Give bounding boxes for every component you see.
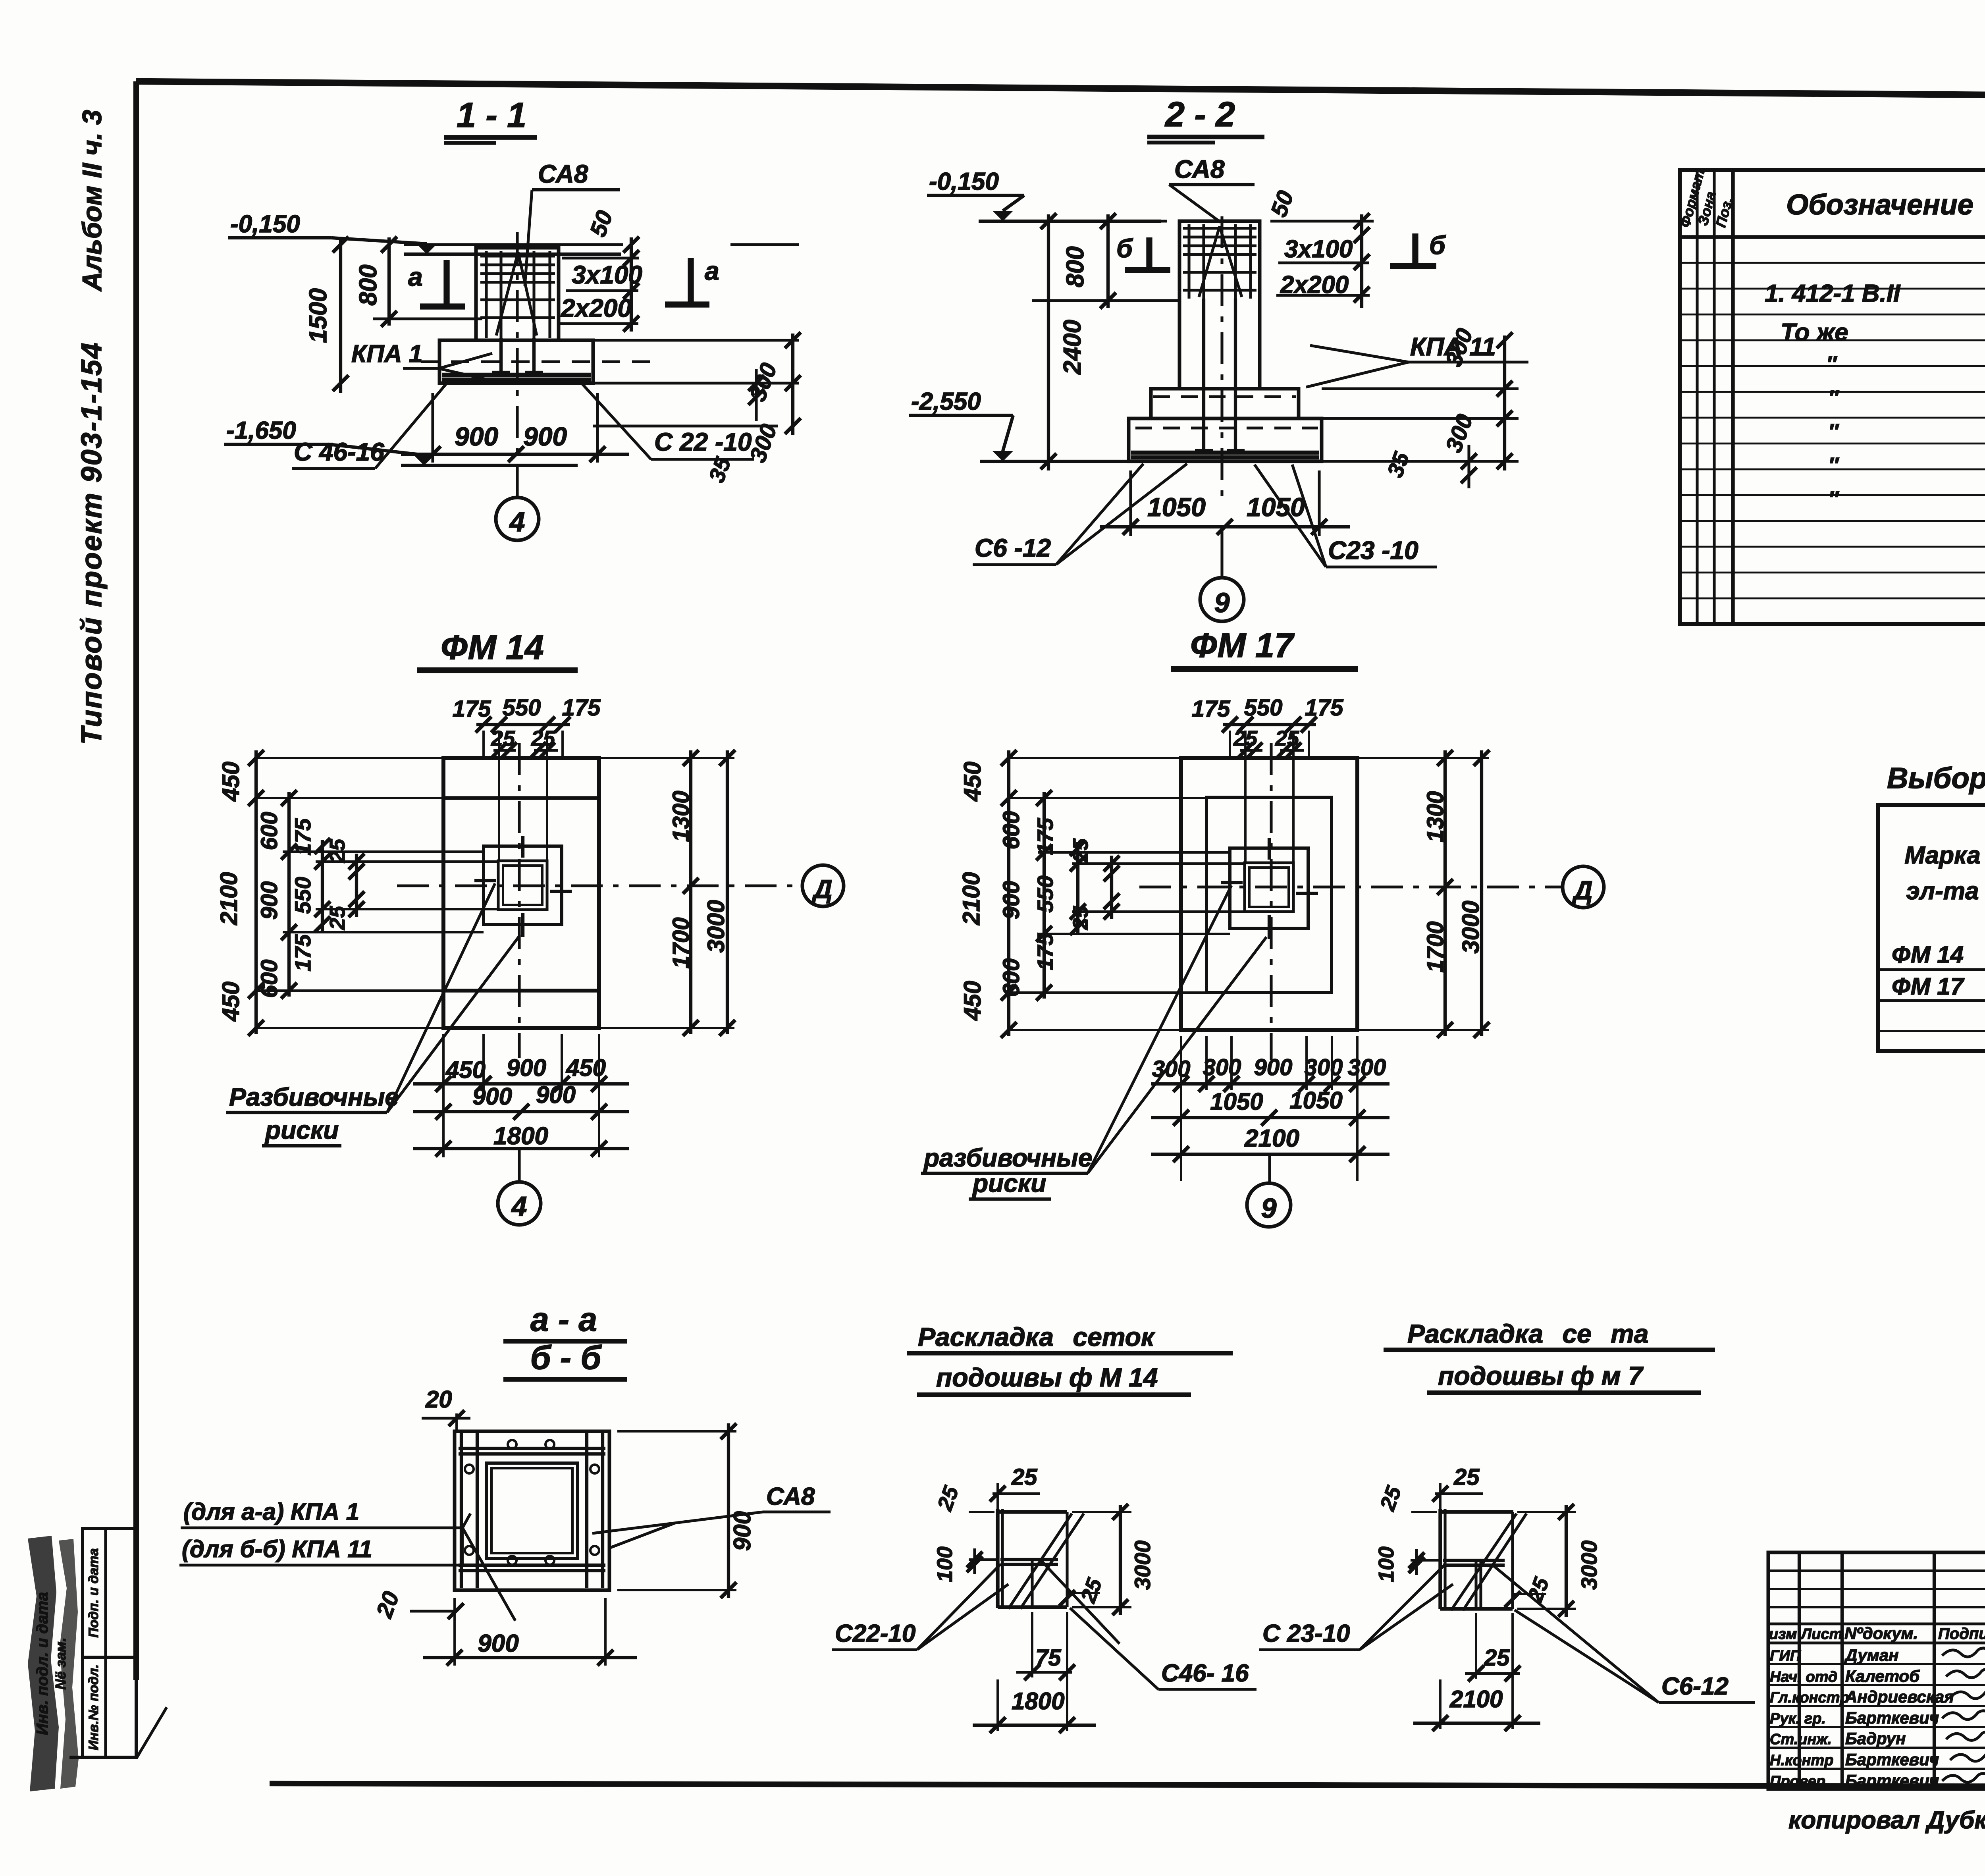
plan FM14 right dim 3000 bbox=[726, 750, 729, 1034]
svg-text:1 - 1: 1 - 1 bbox=[457, 95, 526, 135]
svg-text:900: 900 bbox=[523, 422, 567, 451]
plan FM17 middle step rect bbox=[1206, 797, 1332, 993]
plan FM17 axis circle Д bbox=[1563, 866, 1604, 908]
plan FM17 axis circle 9 bottom bbox=[1268, 1154, 1271, 1184]
svg-text:25: 25 bbox=[1453, 1464, 1480, 1490]
plan FM14 top dim 25/25 bbox=[493, 749, 516, 752]
components table vertical lines bbox=[1696, 170, 1698, 624]
raskladka FM7 dim 3000 right bbox=[1517, 1511, 1576, 1513]
plan FM14 right extension lines bbox=[599, 757, 734, 759]
svg-text:900: 900 bbox=[455, 422, 498, 451]
svg-text:25: 25 bbox=[1069, 838, 1093, 863]
detail dim 900 bottom bbox=[453, 1598, 456, 1666]
left stamp dark smudge strokes bbox=[28, 1536, 59, 1791]
svg-text:СА8: СА8 bbox=[766, 1483, 815, 1510]
svg-text:2100: 2100 bbox=[958, 872, 985, 925]
plan FM14 axis circle 4 bottom bbox=[518, 1149, 520, 1182]
svg-text:25: 25 bbox=[1011, 1464, 1037, 1490]
svg-text:СА8: СА8 bbox=[538, 160, 588, 188]
plan FM14 bottom dim 450/900/450 bbox=[442, 1034, 445, 1157]
svg-text:300: 300 bbox=[1348, 1055, 1386, 1080]
section 2-2 column mesh verticals bbox=[1187, 224, 1190, 299]
svg-text:4: 4 bbox=[511, 1191, 527, 1222]
plan FM17 right dim 1300/1700 bbox=[1443, 750, 1447, 1036]
svg-text:175: 175 bbox=[1033, 933, 1058, 970]
section 1-1 bottom dim 900 900 bbox=[431, 393, 434, 463]
svg-text:175: 175 bbox=[1192, 696, 1231, 722]
raskladka FM7 mesh square bbox=[1440, 1510, 1513, 1514]
section 1-1 dim 1500 vertical bbox=[339, 237, 342, 393]
svg-text:175: 175 bbox=[1305, 695, 1344, 721]
svg-text:25: 25 bbox=[531, 727, 555, 750]
svg-text:С6-12: С6-12 bbox=[1661, 1673, 1729, 1700]
svg-text:а: а bbox=[408, 262, 423, 291]
svg-text:1050: 1050 bbox=[1289, 1087, 1342, 1114]
svg-text:20: 20 bbox=[425, 1386, 452, 1413]
title block left table header row line bbox=[1768, 1641, 1985, 1644]
svg-text:Д: Д bbox=[811, 874, 833, 904]
svg-text:3х100: 3х100 bbox=[572, 260, 642, 289]
plan FM17 left dim chain 600/900/600 bbox=[1043, 792, 1046, 999]
svg-text:1300: 1300 bbox=[668, 791, 694, 842]
plan FM17 vertical axis bbox=[1270, 743, 1272, 1060]
svg-text:Лист: Лист bbox=[1800, 1626, 1842, 1643]
svg-text:Инв. подл. и дата: Инв. подл. и дата bbox=[34, 1592, 51, 1735]
section 1-1 dim 50 right bbox=[630, 237, 633, 332]
svg-text:Гл.констр: Гл.констр bbox=[1770, 1689, 1849, 1706]
svg-text:Бадрун: Бадрун bbox=[1845, 1729, 1906, 1748]
svg-text:800: 800 bbox=[355, 264, 382, 305]
svg-text:-2,550: -2,550 bbox=[911, 388, 981, 415]
detail inner square bbox=[486, 1463, 578, 1558]
svg-text:Подпись: Подпись bbox=[1938, 1625, 1985, 1643]
title block left table data row lines bbox=[1768, 1663, 1985, 1665]
svg-text:С22-10: С22-10 bbox=[835, 1620, 915, 1647]
svg-text:300: 300 bbox=[1152, 1056, 1191, 1082]
plan FM17 bottom dim 300/300/900/300/300 bbox=[1180, 1036, 1182, 1181]
svg-text:То же: То же bbox=[1781, 319, 1848, 346]
svg-text:разбивочные: разбивочные bbox=[923, 1143, 1092, 1172]
left stamp box: Инв. № подл. bbox=[83, 1657, 136, 1757]
svg-text:900: 900 bbox=[998, 881, 1024, 920]
section 1-1 top datum extension bbox=[404, 243, 623, 246]
svg-text:С 22 -10: С 22 -10 bbox=[654, 428, 752, 456]
section 2-2 bottom dim 1050 1050 bbox=[1129, 470, 1132, 536]
plan FM17 right extension lines bbox=[1357, 757, 1489, 759]
section 2-2 dashed lines bbox=[1153, 395, 1296, 398]
svg-text:Nё зам.: Nё зам. bbox=[52, 1637, 69, 1689]
svg-text:3000: 3000 bbox=[1457, 900, 1484, 953]
plan FM17 horizontal axis bbox=[1139, 885, 1562, 888]
svg-text:риски: риски bbox=[264, 1116, 339, 1144]
svg-text:3000: 3000 bbox=[703, 900, 729, 952]
svg-text:Альбом II ч. 3: Альбом II ч. 3 bbox=[77, 110, 107, 292]
svg-text:КПА 1: КПА 1 bbox=[351, 340, 422, 368]
svg-text:″: ″ bbox=[1828, 487, 1839, 511]
section 1-1 footing axis dashed bbox=[421, 360, 651, 363]
svg-text:Рук. гр.: Рук. гр. bbox=[1770, 1710, 1826, 1727]
svg-text:600: 600 bbox=[998, 811, 1024, 850]
plan FM14 right dim 1300/1700 bbox=[689, 750, 692, 1034]
plan FM14 inner column square bbox=[498, 861, 547, 910]
section 2-2 lower slab outline bbox=[1129, 418, 1322, 461]
plan FM17 bottom dim 2100 bbox=[1151, 1153, 1389, 1156]
svg-text:ФМ 14: ФМ 14 bbox=[1892, 941, 1964, 968]
plan FM17 left dim chain 450/2100/450 bbox=[1007, 750, 1010, 1036]
svg-text:450: 450 bbox=[959, 762, 986, 802]
svg-text:ФМ 17: ФМ 17 bbox=[1892, 973, 1965, 1000]
svg-text:Провер.: Провер. bbox=[1770, 1773, 1830, 1790]
title block left table outer bbox=[1768, 1552, 1985, 1789]
svg-text:600: 600 bbox=[256, 812, 282, 850]
svg-text:900: 900 bbox=[536, 1082, 576, 1108]
plan FM14 riski marks bbox=[521, 836, 524, 858]
svg-text:подошвы ф М 14: подошвы ф М 14 bbox=[936, 1363, 1158, 1392]
svg-text:900: 900 bbox=[256, 881, 282, 920]
svg-text:175: 175 bbox=[290, 818, 315, 855]
raskladka FM14 mesh inner bars bbox=[1000, 1558, 1058, 1561]
svg-text:2400: 2400 bbox=[1059, 320, 1086, 375]
svg-text:(для б-б) КПА 11: (для б-б) КПА 11 bbox=[182, 1536, 372, 1562]
section 2-2 dim 2400 vertical bbox=[1047, 214, 1050, 470]
section 1-1 footing outline bbox=[439, 340, 593, 383]
plan FM17 left dim chain 175/550/175 bbox=[1076, 842, 1079, 933]
components table outer box bbox=[1680, 170, 1985, 624]
section 1-1 footing bottom mesh bbox=[442, 373, 591, 377]
svg-text:Ст.инж.: Ст.инж. bbox=[1770, 1731, 1832, 1748]
plan FM14 left dim chain 175/550/175 bbox=[321, 840, 324, 931]
raskladka FM14 mesh square bbox=[998, 1510, 1067, 1514]
svg-text:Инв.№ подл.: Инв.№ подл. bbox=[86, 1664, 101, 1751]
raskladka FM14 break diagonals bbox=[1008, 1514, 1072, 1609]
svg-text:1700: 1700 bbox=[1422, 921, 1448, 972]
svg-text:С 46-16: С 46-16 bbox=[294, 438, 384, 466]
svg-text:300: 300 bbox=[1203, 1055, 1241, 1080]
title block left table verticals bbox=[1798, 1552, 1801, 1789]
plan FM14 step lines bbox=[443, 796, 599, 800]
svg-text:Д: Д bbox=[1572, 875, 1593, 905]
svg-text:1. 412-1 В.II: 1. 412-1 В.II bbox=[1765, 280, 1901, 307]
svg-text:450: 450 bbox=[566, 1055, 606, 1081]
svg-text:450: 450 bbox=[218, 981, 244, 1022]
svg-text:Обозначение: Обозначение bbox=[1786, 189, 1973, 221]
plan FM14 left extension lines bbox=[254, 757, 443, 759]
svg-text:25: 25 bbox=[1069, 906, 1093, 930]
svg-text:б: б bbox=[1429, 230, 1446, 260]
svg-text:2100: 2100 bbox=[1244, 1125, 1299, 1152]
svg-text:550: 550 bbox=[1244, 695, 1283, 721]
section 1-1 vertical axis bbox=[516, 232, 518, 496]
svg-text:Андриевская: Андриевская bbox=[1845, 1687, 1954, 1706]
svg-text:Подп. и дата: Подп. и дата bbox=[86, 1548, 101, 1637]
title block signatures bbox=[1942, 1648, 1985, 1657]
svg-text:б: б bbox=[1116, 233, 1133, 263]
svg-text:100: 100 bbox=[933, 1546, 957, 1582]
svg-text:25: 25 bbox=[491, 727, 515, 750]
svg-text:Калетоб: Калетоб bbox=[1845, 1667, 1920, 1685]
plan FM17 right dim 3000 bbox=[1480, 750, 1483, 1036]
section 1-1 cut flag a left bbox=[443, 260, 449, 307]
svg-text:4: 4 bbox=[509, 506, 525, 537]
detail left vertical bars bbox=[460, 1433, 463, 1588]
svg-text:9: 9 bbox=[1214, 587, 1230, 618]
svg-text:9: 9 bbox=[1261, 1193, 1277, 1224]
plan FM17 inner column square bbox=[1245, 863, 1293, 912]
svg-text:″: ″ bbox=[1826, 352, 1837, 376]
plan FM17 left extension lines bbox=[1007, 757, 1181, 759]
section 2-2 column outline bbox=[1179, 221, 1260, 389]
svg-text:550: 550 bbox=[290, 877, 315, 914]
section 1-1 column outline bbox=[476, 248, 559, 340]
svg-text:эл-та: эл-та bbox=[1906, 877, 1979, 905]
svg-text:Н.контр: Н.контр bbox=[1770, 1752, 1833, 1769]
svg-text:а: а bbox=[705, 256, 719, 285]
svg-text:1800: 1800 bbox=[493, 1122, 548, 1150]
components table header bottom line bbox=[1680, 235, 1985, 239]
plan FM17 outer footing rect bbox=[1181, 758, 1357, 1030]
svg-text:3000: 3000 bbox=[1130, 1541, 1155, 1590]
svg-text:С6 -12: С6 -12 bbox=[975, 534, 1051, 562]
plan FM14 axis circle Д bbox=[802, 865, 844, 906]
svg-text:Думан: Думан bbox=[1844, 1646, 1899, 1664]
svg-text:550: 550 bbox=[503, 695, 541, 721]
svg-text:Марка: Марка bbox=[1904, 842, 1980, 869]
section 2-2 right dims 300 300 35 bbox=[1322, 387, 1519, 390]
svg-text:С46- 16: С46- 16 bbox=[1161, 1660, 1249, 1687]
svg-text:копировал Дубкова: копировал Дубкова bbox=[1788, 1807, 1985, 1834]
plan FM17 riski marks bbox=[1268, 838, 1271, 860]
svg-text:риски: риски bbox=[972, 1169, 1046, 1197]
detail right vertical bars bbox=[585, 1433, 588, 1588]
title block left table top revision rows bbox=[1768, 1569, 1985, 1572]
svg-text:Раскладка сеток: Раскладка сеток bbox=[918, 1322, 1156, 1352]
svg-text:300: 300 bbox=[1305, 1055, 1343, 1080]
svg-text:изм: изм bbox=[1769, 1626, 1797, 1643]
section 1-1 dim 800 vertical bbox=[387, 237, 391, 326]
svg-text:(для а-а) КПА 1: (для а-а) КПА 1 bbox=[183, 1498, 359, 1525]
section 2-2 cut flag b right bbox=[1412, 233, 1418, 266]
detail square outer bbox=[455, 1431, 609, 1590]
svg-text:-0,150: -0,150 bbox=[929, 168, 999, 195]
section 1-1 cut flag a right bbox=[688, 258, 694, 305]
svg-text:ГИП: ГИП bbox=[1770, 1648, 1801, 1664]
sheet frame top border bbox=[136, 81, 1985, 99]
svg-text:175: 175 bbox=[290, 934, 315, 971]
plan FM17 left dim chain 25/25 bbox=[1110, 856, 1113, 919]
section 2-2 axis circle 9 bbox=[1200, 578, 1244, 621]
svg-text:25: 25 bbox=[1484, 1645, 1510, 1671]
svg-text:1050: 1050 bbox=[1210, 1088, 1263, 1115]
svg-text:900: 900 bbox=[478, 1630, 518, 1657]
svg-text:Барткевич: Барткевич bbox=[1845, 1771, 1939, 1790]
section 2-2 cut flag b left bbox=[1146, 237, 1152, 270]
svg-text:175: 175 bbox=[453, 696, 491, 722]
section 1-1 column mesh horizontals bbox=[480, 255, 555, 257]
svg-text:ФМ 14: ФМ 14 bbox=[441, 629, 543, 667]
svg-text:Выборка стали на один эле: Выборка стали на один элемент, кг bbox=[1887, 762, 1985, 794]
plan FM17 middle square bbox=[1230, 848, 1308, 928]
svg-text:ФМ 17: ФМ 17 bbox=[1190, 627, 1295, 665]
section 2-2 column rebars bbox=[1202, 299, 1205, 451]
detail bottom double lines bbox=[459, 1564, 605, 1567]
section 1-1 column rebars into footing bbox=[499, 338, 503, 372]
svg-text:900: 900 bbox=[507, 1055, 546, 1081]
svg-text:1800: 1800 bbox=[1012, 1688, 1064, 1714]
section 2-2 slab bottom mesh bbox=[1131, 451, 1319, 455]
svg-text:450: 450 bbox=[445, 1057, 486, 1083]
plan FM14 left dim chain 450/2100/450 bbox=[254, 750, 258, 1034]
section 2-2 dim 50 right bbox=[1360, 214, 1363, 308]
svg-text:450: 450 bbox=[218, 762, 244, 802]
svg-text:С23 -10: С23 -10 bbox=[1328, 536, 1418, 565]
detail rebar circles bbox=[508, 1440, 516, 1449]
svg-text:600: 600 bbox=[998, 958, 1024, 997]
svg-text:подошвы ф м 7: подошвы ф м 7 bbox=[1438, 1361, 1644, 1390]
plan FM14 top dim 175/550/175 bbox=[476, 723, 570, 726]
svg-text:2 - 2: 2 - 2 bbox=[1164, 94, 1235, 134]
plan FM14 left dim chain 600/900/600 bbox=[287, 792, 291, 997]
section 2-2 upper step outline bbox=[1151, 389, 1299, 418]
svg-text:СА8: СА8 bbox=[1174, 155, 1225, 183]
sheet frame left border bbox=[133, 81, 139, 1680]
svg-text:600: 600 bbox=[256, 960, 282, 998]
svg-text:1300: 1300 bbox=[1422, 791, 1448, 842]
svg-text:б - б: б - б bbox=[530, 1339, 602, 1376]
plan FM17 top dim 25/25 bbox=[1240, 749, 1262, 752]
components table thin row lines bbox=[1680, 262, 1985, 264]
svg-text:2100: 2100 bbox=[216, 872, 242, 925]
svg-text:2100: 2100 bbox=[1449, 1686, 1503, 1712]
plan FM14 bottom dim 900/900 bbox=[413, 1110, 629, 1113]
plan FM14 horizontal axis bbox=[397, 884, 801, 887]
section 2-2 column diagonals bbox=[1220, 226, 1242, 297]
section 2-2 dim 800 vertical bbox=[1106, 214, 1110, 308]
svg-text:Нач. отд: Нач. отд bbox=[1770, 1669, 1837, 1685]
svg-text:175: 175 bbox=[1033, 817, 1058, 855]
svg-text:1500: 1500 bbox=[304, 288, 332, 343]
svg-text:3000: 3000 bbox=[1576, 1541, 1601, 1590]
raskladka FM7 mesh inner bars bbox=[1443, 1559, 1505, 1562]
plan FM14 middle square bbox=[484, 846, 562, 924]
section 1-1 column diagonal bars bbox=[518, 252, 537, 335]
svg-text:Nºдокум.: Nºдокум. bbox=[1844, 1624, 1918, 1643]
plan FM14 left dim chain 25/25 bbox=[355, 854, 358, 917]
svg-text:1700: 1700 bbox=[668, 917, 694, 968]
svg-text:Барткевич: Барткевич bbox=[1845, 1708, 1939, 1727]
svg-text:25: 25 bbox=[1275, 727, 1299, 750]
plan FM17 top dim 175/550/175 bbox=[1223, 723, 1316, 726]
svg-text:1050: 1050 bbox=[1147, 492, 1206, 522]
section 2-2 vertical axis bbox=[1220, 216, 1223, 496]
svg-text:Барткевич: Барткевич bbox=[1845, 1750, 1939, 1769]
svg-text:″: ″ bbox=[1828, 386, 1839, 410]
svg-text:900: 900 bbox=[472, 1083, 512, 1110]
plan FM14 vertical axis bbox=[518, 743, 520, 1058]
section 2-2 column mesh horizontals bbox=[1183, 227, 1257, 229]
raskladka FM7 break diagonals bbox=[1451, 1514, 1517, 1610]
raskladka FM14 dim 3000 right bbox=[1072, 1511, 1131, 1513]
section 1-1 right side dims 300/300/35 bbox=[593, 339, 799, 341]
svg-text:-0,150: -0,150 bbox=[230, 210, 300, 238]
svg-text:″: ″ bbox=[1828, 420, 1839, 443]
plan FM14 outer footing rect bbox=[443, 758, 599, 1028]
vyborka table outer bbox=[1878, 805, 1985, 1051]
svg-text:175: 175 bbox=[562, 695, 601, 721]
svg-text:3х100: 3х100 bbox=[1284, 235, 1353, 263]
left stamp box: Подп. и дата bbox=[83, 1529, 136, 1657]
svg-text:100: 100 bbox=[1374, 1546, 1398, 1582]
svg-text:550: 550 bbox=[1033, 875, 1058, 912]
svg-text:Разбивочные: Разбивочные bbox=[229, 1083, 399, 1111]
svg-text:″: ″ bbox=[1828, 453, 1839, 477]
svg-text:-1,650: -1,650 bbox=[226, 417, 296, 444]
svg-text:Раскладка се та: Раскладка се та bbox=[1407, 1319, 1649, 1348]
section 2-2 top datum extension bbox=[979, 220, 1167, 222]
svg-text:Типовой проект 903-1-154: Типовой проект 903-1-154 bbox=[76, 341, 108, 745]
svg-text:800: 800 bbox=[1062, 246, 1089, 287]
detail dim 900 right bbox=[617, 1430, 736, 1433]
sheet frame bottom border bbox=[270, 1783, 1985, 1787]
detail top double lines bbox=[459, 1447, 605, 1450]
svg-text:25: 25 bbox=[1233, 727, 1258, 750]
svg-text:2х200: 2х200 bbox=[561, 294, 632, 322]
plan FM14 bottom dim 1800 bbox=[413, 1147, 629, 1150]
svg-text:450: 450 bbox=[959, 981, 986, 1021]
section 1-1 column mesh verticals bbox=[485, 251, 488, 338]
plan FM17 bottom dim 1050/1050 bbox=[1151, 1116, 1389, 1119]
svg-text:900: 900 bbox=[1254, 1055, 1293, 1080]
section 1-1 axis circle 4 bbox=[496, 497, 539, 540]
svg-text:а - а: а - а bbox=[530, 1301, 597, 1338]
svg-text:С 23-10: С 23-10 bbox=[1262, 1620, 1350, 1647]
